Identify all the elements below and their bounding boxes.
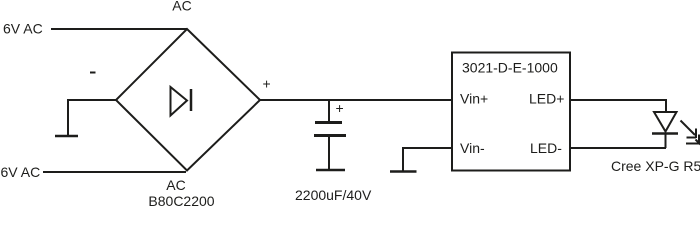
- svg-text:AC: AC: [166, 177, 185, 193]
- svg-text:6V AC: 6V AC: [1, 164, 41, 180]
- svg-text:Vin-: Vin-: [460, 140, 485, 156]
- svg-text:LED-: LED-: [530, 140, 562, 156]
- svg-text:3021-D-E-1000: 3021-D-E-1000: [462, 60, 558, 76]
- svg-text:Vin+: Vin+: [460, 91, 488, 107]
- svg-text:2200uF/40V: 2200uF/40V: [295, 187, 372, 203]
- svg-text:AC: AC: [172, 0, 191, 14]
- svg-text:LED+: LED+: [529, 91, 564, 107]
- svg-text:+: +: [263, 76, 271, 92]
- svg-text:6V AC: 6V AC: [3, 21, 43, 37]
- svg-text:B80C2200: B80C2200: [148, 193, 214, 207]
- svg-text:+: +: [336, 100, 344, 116]
- svg-text:Cree XP-G R5: Cree XP-G R5: [611, 158, 700, 174]
